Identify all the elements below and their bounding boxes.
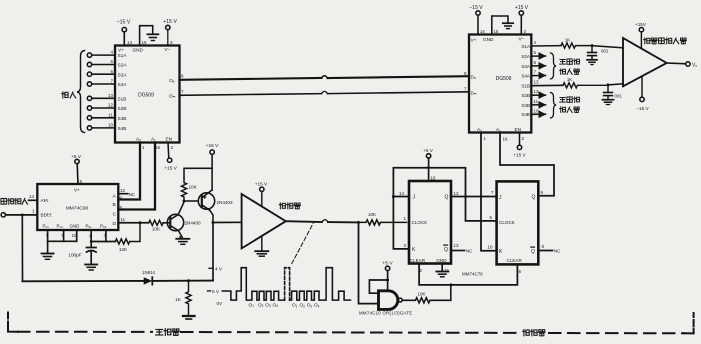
ground (100pF) [85,264,97,266]
svg-text:12: 12 [108,103,114,108]
resistor 10K (clock) [359,220,407,225]
svg-text:7: 7 [491,190,494,195]
svg-text:+15 V: +15 V [513,153,526,158]
svg-text:10: 10 [108,123,114,128]
svg-text:−15 V: −15 V [636,106,649,111]
ground (cap2) [603,99,614,101]
svg-text:13: 13 [534,80,540,85]
terminal +15V (Q2) [210,150,214,154]
ground (cap1) [587,59,597,61]
label 缓冲器 [279,203,285,209]
svg-text:7: 7 [534,70,537,75]
svg-text:DG509: DG509 [138,93,154,99]
resistor 12K [115,223,140,244]
terminal EN +15V (U1) [167,143,170,159]
terminal -15V (U5) [476,11,480,15]
wire AIN [29,199,38,201]
ground (1K) [183,315,195,317]
svg-text:S1B: S1B [118,96,127,101]
svg-text:2: 2 [522,136,525,141]
node OB transmission line [179,94,321,96]
diode D1 1N914 [144,277,153,284]
svg-text:MM74C90: MM74C90 [66,206,89,212]
svg-text:NC: NC [129,192,135,197]
wire P01 to ground [47,230,49,253]
svg-text:+15 V: +15 V [164,166,177,172]
svg-text:O4: O4 [314,303,320,309]
svg-text:001: 001 [601,48,609,53]
buffer amplifier [242,194,286,248]
svg-text:S3B: S3B [118,116,127,121]
svg-text:14: 14 [480,29,485,34]
label 接收器 [523,330,530,336]
wire A0 to counter B [118,143,140,200]
svg-text:7: 7 [181,89,184,94]
terminal +5V (gate) [385,266,389,270]
node 1K tap [187,279,190,282]
resistor 1K (S1A) [561,43,592,48]
counter U2 MM74C90 [37,184,118,230]
resistor 1K to ground [186,281,191,315]
svg-text:10K: 10K [189,185,198,190]
svg-text:10: 10 [72,233,78,238]
svg-text:7: 7 [464,87,467,92]
svg-text:CLOCK: CLOCK [499,220,516,225]
svg-text:A₁: A₁ [151,137,156,142]
svg-text:Q: Q [445,195,449,201]
level labels [209,267,213,269]
wire S1A sample [531,45,561,47]
svg-text:A₀: A₀ [477,127,482,132]
svg-text:4: 4 [110,50,113,55]
node P91 [90,240,93,243]
wire [123,32,125,46]
svg-text:+15V: +15V [635,22,647,27]
svg-text:Q: Q [444,247,448,253]
wire D output [118,222,148,224]
svg-text:Q: Q [531,249,535,255]
node BD junction [21,214,24,217]
capacitor 100pF [87,247,97,249]
terminal +5V (U3) [426,154,430,158]
node gate input [386,279,389,282]
svg-text:V−: V− [519,37,525,42]
svg-text:CLOCK: CLOCK [412,220,429,225]
svg-text:K: K [499,249,503,255]
svg-text:13: 13 [108,93,114,98]
sync pulse (dashed) [285,268,290,300]
label 仪器用放大器 [644,38,650,44]
svg-text:8: 8 [181,74,184,79]
label 发送器 [156,329,163,334]
svg-text:S1B: S1B [521,84,530,89]
label 至其他放大器 [560,97,566,102]
svg-text:2N4400: 2N4400 [185,221,202,226]
svg-text:MM74C10 OR(1/3)GATE: MM74C10 OR(1/3)GATE [359,311,412,316]
ground (U3a) [436,271,448,273]
node clock tap [357,221,360,224]
multiplexer U5 DG509 (receiver) [469,35,531,133]
svg-text:6: 6 [110,69,113,74]
svg-text:S2B: S2B [521,93,530,98]
svg-text:P₀₂: P₀₂ [57,224,64,229]
svg-text:O4: O4 [273,302,279,308]
svg-text:5: 5 [490,215,493,220]
svg-text:S3A: S3A [118,72,128,77]
svg-text:S2B: S2B [118,106,127,111]
svg-text:14: 14 [127,40,133,45]
svg-text:3: 3 [170,40,173,45]
svg-text:12: 12 [454,191,460,196]
svg-text:+15 V: +15 V [515,5,529,11]
svg-text:1K: 1K [565,37,570,42]
wire GND (U3a) [441,264,443,272]
resistor 1K (S1B) [563,83,608,88]
svg-text:1K: 1K [567,77,572,82]
svg-text:V+: V+ [118,48,124,53]
svg-text:2N4403: 2N4403 [217,200,234,205]
svg-text:+15 V: +15 V [255,182,268,187]
svg-text:P₉₁: P₉₁ [86,224,93,229]
wire Q1-bar NC [451,250,465,252]
svg-text:V+: V+ [74,188,80,193]
svg-text:MM74C76: MM74C76 [462,272,483,277]
wire to diode line [21,215,23,281]
svg-text:V−: V− [165,47,171,52]
svg-text:1: 1 [404,216,407,221]
transistor Q2 2N4403 [198,193,214,209]
wire P02/GND bus [63,230,65,241]
brace A group [551,53,557,79]
svg-text:6: 6 [534,60,537,65]
svg-text:001: 001 [615,94,623,99]
svg-text:S4A: S4A [118,82,128,87]
wire Q2 to A1 [500,133,554,196]
resistor 10K (pull-up) [181,178,186,201]
svg-text:4 V: 4 V [215,266,223,271]
svg-text:1K: 1K [175,297,182,302]
svg-text:10: 10 [534,108,540,113]
node Q1 collector / R base [183,200,186,203]
svg-text:14: 14 [399,191,405,196]
resistor 10K (clear) [402,285,451,303]
svg-text:9: 9 [541,190,544,195]
diode line (BD to buffer node) [23,280,144,282]
svg-text:1N914: 1N914 [142,270,155,275]
svg-text:S2A: S2A [118,63,128,68]
svg-text:3: 3 [524,29,527,34]
svg-text:+5 V: +5 V [71,154,82,160]
svg-text:6: 6 [46,233,49,238]
ground (U5 GND pin 15) [492,16,508,35]
svg-text:O1: O1 [292,303,298,309]
ground (Q1 emitter) [176,238,189,240]
svg-text:−15 V: −15 V [117,20,131,26]
svg-text:10K: 10K [417,291,425,296]
svg-text:1: 1 [32,209,35,214]
svg-text:C: C [113,212,117,218]
svg-text:14: 14 [29,194,35,199]
terminal +5V (U2) [76,164,79,184]
multiplexer U1 DG509 (transmitter) [115,46,180,143]
svg-text:DG509: DG509 [496,76,512,82]
node OA transmission line [179,78,321,80]
gate U4 NAND MM74C10 [379,291,398,310]
svg-text:A₁: A₁ [496,127,501,132]
svg-text:10: 10 [488,244,494,249]
svg-text:15: 15 [142,40,148,45]
svg-text:12K: 12K [119,247,128,252]
transistor Q1 2N4400 [167,214,183,230]
svg-text:Q: Q [532,195,536,201]
svg-text:5: 5 [534,50,537,55]
node buffer input [212,221,215,224]
capacitor .001 (S1A hold) [591,46,593,52]
svg-text:Aᳮᳮ: Aᳮᳮ [41,198,50,203]
svg-text:S3A: S3A [521,64,531,69]
svg-text:EN: EN [515,127,521,132]
svg-text:12: 12 [120,188,126,193]
op-amp U6 instrumentation [623,38,667,86]
svg-text:10K: 10K [368,212,376,217]
svg-text:Oₐ: Oₐ [169,78,175,83]
capacitor .001 (S1B hold) [607,85,609,92]
svg-text:6: 6 [519,269,522,274]
svg-text:O2: O2 [300,303,306,309]
svg-text:S2A: S2A [521,54,531,59]
wire feedback loop [369,280,387,293]
svg-text:P₀₁: P₀₁ [43,224,50,229]
svg-text:NC: NC [466,249,472,254]
svg-text:10K: 10K [152,227,160,232]
svg-text:CLEAR: CLEAR [507,258,523,263]
svg-text:13: 13 [454,243,460,248]
border (dashed) [8,313,694,334]
svg-text:P₉₂: P₉₂ [100,224,107,229]
svg-text:12: 12 [534,89,540,94]
svg-text:11: 11 [108,112,113,117]
callout line [292,223,313,263]
flip-flop U3b MM74C76 [497,181,539,264]
svg-text:11: 11 [534,99,539,104]
svg-text:D: D [113,221,117,227]
svg-text:2: 2 [171,145,174,150]
flip-flop U3a MM74C76 [409,181,451,264]
svg-text:J: J [499,195,502,201]
svg-text:GND: GND [70,224,80,229]
svg-text:15: 15 [494,29,499,34]
svg-text:−15 V: −15 V [469,5,483,11]
wire to NAND input [359,222,379,303]
svg-text:Dₘ: Dₘ [471,90,477,95]
svg-text:1: 1 [142,145,145,150]
input terminals S1A-S4B [87,53,115,130]
svg-text:S4A: S4A [521,74,531,79]
svg-text:11: 11 [121,217,126,222]
svg-text:O1: O1 [249,302,255,308]
svg-text:+15 V: +15 V [163,19,177,25]
pin A NC [118,193,128,195]
svg-text:S4B: S4B [521,112,530,117]
svg-text:S1A: S1A [521,44,531,49]
svg-text:7: 7 [110,79,113,84]
svg-text:GND: GND [436,258,447,263]
svg-text:+5 V: +5 V [382,261,393,267]
wire Q1 to FF2 J [451,196,497,198]
label 至其他放大器 [560,59,566,64]
svg-text:16: 16 [503,137,509,142]
wire A0 down [480,133,482,197]
svg-text:EN: EN [166,137,173,142]
svg-text:S4B: S4B [118,126,127,131]
brace B group [551,93,557,119]
wire P91/P92 bus [90,230,92,247]
svg-text:S1A: S1A [118,53,128,58]
terminal +15V (U1 V-) [166,25,170,29]
svg-text:5 V: 5 V [212,289,220,294]
svg-text:3: 3 [404,243,407,248]
terminal EN +15V (U5) [519,133,521,146]
svg-text:S3B: S3B [521,103,530,108]
arrows S2A S3A S4A [531,55,545,57]
waveform inset [222,268,284,300]
svg-text:0V: 0V [217,301,224,306]
ground (U1 GND pin 15) [140,26,153,46]
wire A1 to counter C [118,143,155,210]
ground (P01) [42,253,54,255]
label 输入 [62,92,68,98]
svg-text:GND: GND [483,37,494,42]
ground (buffer) [255,250,268,252]
wire Q2-bar NC [538,250,552,252]
svg-text:+15 V: +15 V [206,143,219,149]
input brace [77,51,85,133]
svg-text:BDᳮᳮ: BDᳮᳮ [41,213,53,218]
svg-text:Dₐ: Dₐ [471,74,476,79]
svg-text:O3: O3 [265,302,271,308]
svg-text:1: 1 [484,136,487,141]
svg-text:CLEAR: CLEAR [410,258,426,263]
terminal BD input [1,213,5,217]
wire S1B sample [531,84,563,86]
svg-text:B: B [113,202,116,208]
wire K2 from Q1 node [481,197,497,251]
svg-text:Oₘ: Oₘ [169,94,176,99]
wire output Vo [667,62,686,65]
resistor 10K (base Q1) [149,220,170,225]
svg-text:4: 4 [534,40,537,45]
svg-text:A₀: A₀ [136,137,141,142]
node D junction [139,221,142,224]
svg-text:A: A [113,194,117,200]
svg-text:GND: GND [133,47,144,52]
wire clear bus [419,264,517,285]
label 时钟输入 [1,198,7,204]
svg-text:K: K [412,247,416,253]
J K tie rail [393,168,496,221]
terminal +15V (U5) [519,11,523,15]
svg-text:O3: O3 [307,303,313,309]
svg-text:V+: V+ [471,38,477,43]
wire buffer output [286,220,322,223]
svg-text:O2: O2 [258,302,264,308]
svg-text:J: J [413,195,416,201]
wire +15V rail [184,168,212,178]
svg-text:100pF: 100pF [68,253,81,258]
svg-text:+5 V: +5 V [423,148,434,153]
svg-text:Vₒ: Vₒ [692,62,697,68]
terminal -15V (U1 V+) [122,27,126,31]
svg-text:NC: NC [554,249,560,254]
pulse labels O1-O4 [249,302,320,308]
svg-text:8: 8 [542,244,545,249]
arrows S2B S3B S4B [531,94,545,96]
svg-text:16: 16 [431,176,437,181]
svg-text:5: 5 [110,59,113,64]
